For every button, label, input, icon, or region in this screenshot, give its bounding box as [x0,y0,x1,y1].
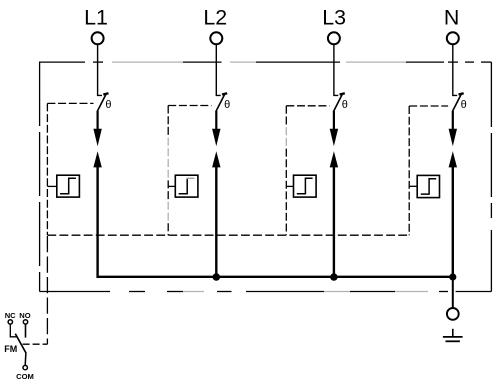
svg-text:θ: θ [224,99,230,111]
wire NO lead [25,324,27,337]
wire to bus L1 [96,167,98,276]
wire feed L2 [216,44,220,95]
svg-text:θ: θ [461,99,467,111]
svg-text:θ: θ [105,99,111,111]
enclosure outline bottom edge [40,291,492,293]
wire to bus L3 [333,167,335,276]
spark gap up electrode L1 [93,151,101,167]
linkage dashed to FM [23,343,48,345]
indicator box N [417,175,439,197]
svg-text:NC: NC [5,311,16,320]
wire feed L1 [98,44,102,95]
junction dot L3 [330,273,338,281]
svg-text:θ: θ [342,99,348,111]
indicator stub L2 [168,185,175,187]
thermal disconnect blade L1 [97,94,106,112]
thermal disconnect blade N [452,94,461,112]
module 1 dashed top partial [47,102,93,104]
phase module N [409,44,467,277]
module linkage dashed vertical 3 [285,106,287,125]
enclosure outline right edge [490,62,492,291]
module linkage dashed vertical 2 [167,106,169,135]
wire COM lead [24,352,27,365]
module 2 dashed top partial [168,105,211,107]
svg-text:L1: L1 [84,6,108,30]
wire NC lead [10,324,17,337]
wire below disconnect L3 [333,111,335,129]
junction dot L2 [213,273,221,281]
terminal N [447,32,459,44]
enclosure outline left edge [39,62,41,291]
wire feed L3 [334,44,338,95]
wire below disconnect L2 [215,111,217,129]
indicator stub L3 [286,185,293,187]
terminal L2 [210,32,222,44]
indicator box L3 [294,175,317,197]
linkage dashed horizontal bottom [47,234,409,236]
module linkage dashed vertical 1 [46,103,48,235]
spark gap down electrode L2 [212,129,220,146]
phase module L3 [286,44,348,276]
wire N to earth terminal [452,277,454,308]
spark gap down electrode L1 [93,129,101,146]
indicator box L1 [57,175,80,197]
indicator stub L1 [47,185,56,187]
svg-text:L2: L2 [203,6,227,30]
phase module L2 [168,44,230,276]
earth terminal circle [447,308,459,320]
terminal L1 [92,32,104,44]
wire below disconnect L1 [96,111,98,129]
svg-text:FM: FM [4,344,17,354]
spark gap up electrode N [449,151,457,167]
indicator box L2 [175,175,198,197]
module linkage dashed vertical 4 [408,106,410,235]
linkage dashed vertical to FM [46,236,48,344]
spark gap down electrode L3 [330,129,338,146]
terminal NC [8,320,12,324]
common bus wire [96,276,452,278]
phase module L1 [47,44,111,276]
wire feed N [453,44,457,95]
svg-text:COM: COM [16,372,34,381]
thermal disconnect blade L3 [334,94,343,112]
terminal L3 [328,32,340,44]
wire to bus N [452,167,454,277]
module 3 dashed top partial [286,105,329,107]
spark gap down electrode N [449,129,457,146]
spark gap up electrode L2 [212,151,220,167]
changeover blade FM [15,334,26,354]
terminal NO [23,320,27,324]
svg-text:N: N [444,6,459,30]
wire to bus L2 [215,167,217,276]
spark gap up electrode L3 [330,151,338,167]
module 4 dashed top partial [409,105,448,107]
enclosure outline top edge (long dashes) [39,61,491,63]
svg-text:L3: L3 [322,6,346,30]
terminal COM [23,365,27,369]
indicator stub N [409,185,417,187]
thermal disconnect blade L2 [216,94,225,112]
ground symbol [443,329,463,342]
junction dot N [449,273,456,280]
wire below disconnect N [452,111,454,129]
svg-text:NO: NO [19,311,30,320]
